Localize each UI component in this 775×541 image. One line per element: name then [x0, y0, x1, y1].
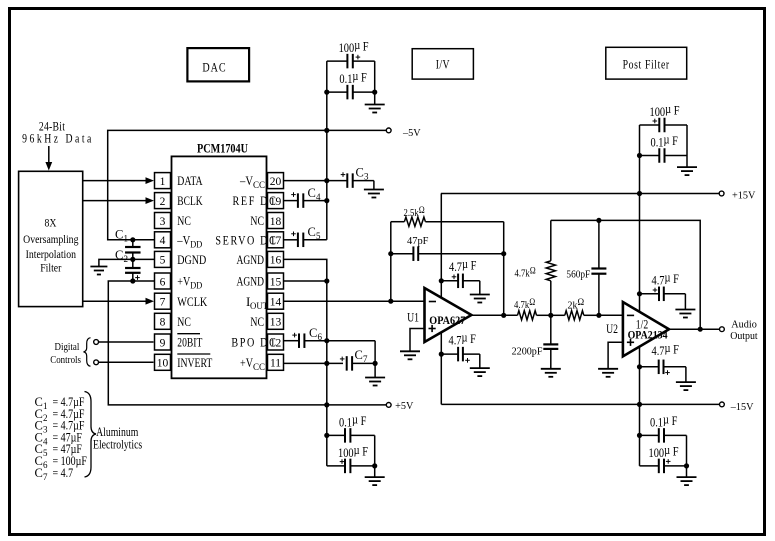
- terminal INVERT control input: [94, 360, 99, 365]
- pin 19 label REF DC: [233, 194, 278, 208]
- IC PCM1704U body: [172, 156, 267, 378]
- brace for digital controls: [84, 338, 91, 367]
- note Aluminum Electrolytics: [96, 426, 138, 439]
- svg-text:Digital: Digital: [55, 341, 80, 353]
- node C2 bottom on +VDD line: [130, 278, 135, 283]
- wire INVERT control to pin 10: [99, 361, 154, 363]
- capacitor 4.7uF U2 negative bypass: [640, 366, 659, 368]
- pin 12 box: [268, 334, 284, 350]
- svg-text:16: 16: [270, 255, 282, 267]
- capacitor C1: [132, 240, 134, 247]
- ground at DGND: [90, 267, 107, 275]
- wire right side +15V bypass: [686, 125, 688, 156]
- svg-text:3: 3: [43, 425, 48, 435]
- svg-text:20BIT: 20BIT: [177, 335, 202, 350]
- label 560pF: [566, 269, 590, 281]
- label +5V: [395, 401, 414, 412]
- resistor 2k series: [551, 314, 565, 316]
- svg-text:U2: U2: [606, 323, 618, 336]
- node 47pF right: [501, 251, 506, 256]
- wire U1 supply vertical from +15V to -15V: [440, 194, 442, 405]
- node U1 output junction: [501, 313, 506, 318]
- label 100uF -15V: [649, 443, 679, 460]
- block label text DAC: [202, 60, 226, 74]
- pin 5 box: [155, 251, 171, 267]
- svg-text:I/V: I/V: [436, 58, 450, 71]
- node C4 on -5V vertical: [324, 198, 329, 203]
- svg-text:INVERT: INVERT: [177, 355, 212, 370]
- svg-text:20: 20: [270, 176, 282, 188]
- svg-text:DD: DD: [190, 282, 202, 292]
- svg-text:NC: NC: [250, 314, 264, 329]
- wire WCLK from filter to pin 7 with arrow: [83, 300, 146, 302]
- wire U2 supply vertical: [639, 125, 641, 466]
- label 24-Bit 96kHz Data: [39, 120, 66, 133]
- svg-text:CC: CC: [253, 181, 265, 191]
- svg-text:NC: NC: [250, 213, 264, 228]
- pin 13 box: [268, 313, 284, 329]
- svg-text:Electrolytics: Electrolytics: [93, 438, 142, 451]
- wire node B to U2 inverting input: [599, 314, 623, 316]
- wire -VDD pin 4 to -5V rail: [108, 130, 327, 239]
- U2 plus input mark: [627, 339, 634, 346]
- node filter node B at 560pF: [596, 313, 601, 318]
- svg-text:SERVO DC: SERVO DC: [215, 233, 277, 247]
- svg-text:47pF: 47pF: [407, 235, 429, 247]
- node 0.1uF +15V left: [637, 153, 642, 158]
- wire AGND pin 16: [284, 259, 327, 281]
- svg-text:13: 13: [270, 317, 282, 329]
- terminal -5V: [386, 128, 391, 133]
- node AGND junction: [324, 278, 329, 283]
- wire AGND vertical down to +5V rail: [326, 281, 328, 466]
- label 4.7uF U1 bottom: [449, 330, 477, 347]
- node 47pF left: [388, 251, 393, 256]
- pin 9 box: [155, 334, 171, 350]
- node filter node A: [548, 313, 553, 318]
- svg-text:11: 11: [270, 358, 281, 370]
- ground for +15V bypass: [686, 156, 688, 167]
- svg-text:560pF: 560pF: [566, 269, 590, 281]
- ground for U2 negative bypass: [685, 367, 687, 382]
- wire DATA from filter to pin 1 with arrow: [83, 180, 146, 182]
- svg-text:2: 2: [43, 413, 48, 423]
- svg-text:DATA: DATA: [177, 173, 203, 188]
- label Audio Output: [731, 319, 757, 330]
- op-amp U1 OPA627 triangle: [425, 288, 472, 342]
- pin 7 box: [155, 293, 171, 309]
- pin 3 box: [155, 213, 171, 229]
- U1 plus input mark: [429, 325, 436, 332]
- arrow input data into filter: [48, 146, 50, 164]
- pin 2 box: [155, 193, 171, 209]
- node 0.1uF -15V left: [637, 433, 642, 438]
- capacitor C4 on REF DC pin 19: [284, 200, 298, 202]
- pin 15 box: [268, 273, 284, 289]
- pin 17 label SERVO DC: [215, 233, 277, 247]
- ground for DAC top bypass: [374, 92, 376, 104]
- pin 11 box: [268, 354, 284, 370]
- svg-text:–5V: –5V: [402, 128, 421, 139]
- terminal -15V: [720, 402, 725, 407]
- wire IOUT pin 14 to U1 inverting input: [284, 300, 425, 302]
- svg-text:OUT: OUT: [250, 302, 268, 312]
- pin 18 box: [268, 213, 284, 229]
- capacitor 100uF -15V bypass: [640, 465, 659, 467]
- svg-text:1: 1: [43, 401, 48, 411]
- wire U2 feedback line: [551, 220, 700, 329]
- svg-text:CC: CC: [253, 363, 265, 373]
- node -5V rail to bypass vertical: [324, 128, 329, 133]
- capacitor 47pF feedback U1: [391, 253, 414, 255]
- pin 12 label BPO DC: [231, 335, 277, 349]
- svg-text:Filter: Filter: [40, 262, 62, 275]
- block label box DAC: [187, 48, 249, 81]
- ground for -15V bypass: [686, 466, 688, 477]
- svg-text:AGND: AGND: [237, 274, 265, 289]
- svg-text:6: 6: [43, 460, 48, 470]
- svg-text:4: 4: [160, 235, 166, 247]
- terminal +15V: [719, 191, 724, 196]
- pin 19 box: [268, 193, 284, 209]
- ground for bottom DAC bypass: [374, 466, 376, 477]
- label 2.5kOhm: [404, 204, 425, 219]
- svg-text:OPA627: OPA627: [429, 313, 465, 327]
- svg-text:6: 6: [318, 332, 323, 342]
- capacitor 4.7uF U1 positive bypass: [441, 280, 458, 282]
- label 4.7kOhm series1: [514, 296, 535, 311]
- svg-text:C: C: [115, 228, 123, 242]
- ground for U2 positive bypass: [684, 294, 686, 309]
- wire C6 right down to C7 right: [374, 341, 376, 364]
- capacitor C7 on +VCC pin 11: [284, 362, 344, 364]
- svg-text:REF DC: REF DC: [233, 194, 278, 208]
- capacitor 0.1uF bottom DAC bypass: [327, 434, 345, 436]
- label 0.1uF -15V: [650, 412, 678, 429]
- wire -5V vertical bypass rail: [326, 61, 328, 240]
- pin 17 box: [268, 232, 284, 248]
- node C1 bottom on DGND line: [130, 257, 135, 262]
- terminal +5V: [386, 403, 391, 408]
- svg-text:1: 1: [124, 234, 129, 244]
- label 47pF: [407, 235, 429, 247]
- svg-text:–15V: –15V: [730, 402, 754, 413]
- label 100uF top DAC: [339, 38, 369, 55]
- wire 20BIT control to pin 9: [99, 341, 154, 343]
- svg-text:DGND: DGND: [177, 252, 206, 267]
- label 0.1uF bottom DAC: [339, 412, 367, 429]
- pin 6 box: [155, 273, 171, 289]
- block 8X Oversampling Interpolation Filter: [19, 171, 83, 306]
- node 0.1uF right junction: [372, 90, 377, 95]
- wire +15V rail: [441, 193, 720, 195]
- svg-text:+15V: +15V: [732, 190, 756, 201]
- terminal 20BIT control input: [94, 340, 99, 345]
- wire U1 output: [471, 314, 517, 316]
- svg-text:BPO DC: BPO DC: [231, 335, 277, 349]
- svg-text:NC: NC: [177, 213, 191, 228]
- svg-text:C: C: [35, 466, 43, 480]
- svg-text:2200pF: 2200pF: [512, 346, 543, 357]
- capacitor C6 on BPO DC pin 12: [284, 340, 300, 342]
- svg-text:10: 10: [157, 358, 169, 370]
- pin 8 box: [155, 313, 171, 329]
- wire right side -15V bypass: [686, 435, 688, 466]
- wire U1 non-inverting input to ground: [410, 329, 425, 352]
- svg-text:OPA2134: OPA2134: [628, 327, 668, 341]
- node C7 left on vertical: [324, 361, 329, 366]
- svg-text:100µ F: 100µ F: [339, 38, 369, 55]
- label 4.7uF U2 top: [652, 270, 680, 287]
- node +15V rail bypass junction: [637, 191, 642, 196]
- svg-text:Output: Output: [730, 331, 758, 343]
- U1 minus input mark: [429, 301, 436, 303]
- svg-text:Aluminum: Aluminum: [96, 426, 138, 439]
- label U2: [606, 323, 618, 336]
- node C6 on vertical: [324, 338, 329, 343]
- svg-text:6: 6: [160, 276, 166, 288]
- ground for C3: [373, 181, 375, 190]
- label 0.1uF +15V: [651, 132, 679, 149]
- label 2kOhm: [568, 298, 585, 312]
- svg-text:96kHz Data: 96kHz Data: [22, 132, 94, 145]
- block label text Post Filter: [623, 58, 670, 71]
- capacitor C3: [327, 180, 348, 182]
- label 1/2: [636, 319, 648, 332]
- label 100uF +15V: [650, 102, 680, 119]
- capacitor 2200pF to ground: [550, 315, 552, 344]
- node U2 +supply bypass junction: [637, 291, 642, 296]
- node -VDD cap C1 junction: [130, 237, 135, 242]
- node U1 +supply bypass junction: [439, 278, 444, 283]
- wire -15V rail: [441, 403, 720, 405]
- resistor 2.5k feedback U1: [391, 221, 405, 223]
- capacitor C5 on SERVO DC pin 17: [284, 239, 298, 241]
- wire pin 20 -VCC to -5V vertical: [284, 180, 327, 182]
- label 4.7kOhm vertical: [515, 264, 536, 279]
- U2 minus input mark: [627, 314, 634, 316]
- node 0.1uF left junction: [324, 90, 329, 95]
- block label box I/V: [412, 49, 473, 79]
- svg-text:1: 1: [160, 176, 166, 188]
- resistor 4.7k vertical to feedback: [550, 220, 552, 260]
- svg-text:+V: +V: [177, 274, 190, 289]
- svg-text:5: 5: [160, 255, 166, 267]
- terminal audio output: [720, 327, 725, 332]
- capacitor 0.1uF -15V bypass: [640, 434, 659, 436]
- label 2200pF: [512, 346, 543, 357]
- label -15V: [730, 402, 754, 413]
- svg-text:14: 14: [270, 297, 282, 309]
- svg-text:DAC: DAC: [202, 60, 226, 74]
- pin 16 box: [268, 251, 284, 267]
- svg-text:Audio: Audio: [731, 319, 757, 330]
- block label box Post Filter: [606, 47, 687, 79]
- svg-text:5: 5: [316, 231, 321, 241]
- svg-text:C: C: [308, 186, 316, 200]
- svg-text:15: 15: [270, 276, 282, 288]
- svg-text:7: 7: [363, 354, 368, 364]
- capacitor 4.7uF U1 negative bypass: [441, 353, 458, 355]
- capacitor 100uF bottom DAC bypass: [327, 465, 345, 467]
- capacitor 100uF top DAC bypass: [327, 60, 348, 62]
- svg-text:7: 7: [160, 297, 166, 309]
- svg-text:+V: +V: [240, 355, 253, 370]
- capacitor 560pF: [598, 220, 600, 268]
- op-amp U2 OPA2134 triangle: [623, 302, 669, 356]
- wire U2 output to audio output: [669, 328, 720, 330]
- svg-text:–V: –V: [176, 232, 190, 247]
- wire AGND pin 15: [284, 280, 327, 282]
- svg-text:4: 4: [316, 192, 321, 202]
- node feedback junction on IOUT: [388, 299, 393, 304]
- wire DGND pin 5 to ground: [99, 259, 155, 266]
- svg-text:NC: NC: [177, 314, 191, 329]
- svg-text:AGND: AGND: [237, 252, 265, 267]
- capacitor 0.1uF +15V bypass: [640, 155, 660, 157]
- svg-text:Post Filter: Post Filter: [623, 58, 670, 71]
- node 560pF top junction: [596, 218, 601, 223]
- svg-text:C: C: [115, 248, 123, 262]
- pin 14 box: [268, 293, 284, 309]
- label 4.7uF U1 top: [449, 257, 477, 274]
- wire right side of DAC top bypass: [374, 61, 376, 92]
- wire feedback left vertical: [390, 222, 392, 302]
- svg-text:3: 3: [160, 216, 166, 228]
- svg-text:8X: 8X: [45, 217, 57, 230]
- svg-text:Oversampling: Oversampling: [23, 233, 79, 246]
- svg-text:100µ F: 100µ F: [650, 102, 680, 119]
- svg-text:Interpolation: Interpolation: [26, 248, 77, 261]
- node U1 -supply bypass junction: [439, 352, 444, 357]
- node U2 output feedback junction: [698, 327, 703, 332]
- ground at U2 plus input: [598, 369, 618, 377]
- svg-text:4: 4: [43, 436, 48, 446]
- ground at U1 plus input: [400, 351, 420, 359]
- svg-text:Controls: Controls: [50, 355, 81, 367]
- capacitor C2: [132, 259, 134, 268]
- node U2 -supply bypass junction: [637, 364, 642, 369]
- svg-text:U1: U1: [407, 311, 419, 324]
- node -15V rail bypass junction: [637, 402, 642, 407]
- svg-text:= 4.7: = 4.7: [53, 467, 74, 480]
- label 4.7uF U2 bottom: [652, 341, 680, 358]
- ground for 2200pF: [541, 369, 561, 377]
- node C7 right junction: [373, 361, 378, 366]
- capacitor 0.1uF top DAC bypass: [327, 91, 348, 93]
- wire right side bottom bypass: [374, 435, 376, 466]
- svg-text:DD: DD: [190, 240, 202, 250]
- label +15V: [732, 190, 756, 201]
- node pin 20 junction on -5V vertical: [324, 178, 329, 183]
- svg-text:9: 9: [160, 337, 166, 349]
- svg-text:WCLK: WCLK: [177, 294, 207, 309]
- node 100uF -15V right: [684, 463, 689, 468]
- svg-text:–V: –V: [239, 173, 253, 188]
- svg-text:+5V: +5V: [395, 401, 414, 412]
- svg-text:3: 3: [364, 171, 369, 181]
- svg-text:8: 8: [160, 317, 166, 329]
- svg-text:C: C: [309, 326, 317, 340]
- svg-text:18: 18: [270, 216, 282, 228]
- svg-text:BCLK: BCLK: [177, 193, 203, 208]
- pin 1 box: [155, 173, 171, 189]
- svg-text:C: C: [356, 165, 364, 179]
- svg-text:7: 7: [43, 472, 48, 482]
- pin 20 box: [268, 173, 284, 189]
- node +5V rail junction: [324, 402, 329, 407]
- svg-text:2: 2: [160, 196, 166, 208]
- pin 4 box: [155, 232, 171, 248]
- resistor 4.7k series from U1 output: [518, 311, 537, 320]
- svg-text:100µ F: 100µ F: [338, 443, 368, 460]
- label U1: [407, 311, 419, 324]
- svg-text:PCM1704U: PCM1704U: [197, 141, 248, 156]
- svg-text:C: C: [308, 225, 316, 239]
- node 0.1uF bottom left: [324, 433, 329, 438]
- node 100uF bottom right: [372, 463, 377, 468]
- ground for U1 negative bypass: [479, 354, 481, 368]
- label -5V: [402, 128, 421, 139]
- capacitor 4.7uF U2 positive bypass: [640, 293, 660, 295]
- ground for C7: [374, 363, 376, 377]
- svg-text:C: C: [355, 348, 363, 362]
- wire U2 non-inverting input to ground: [608, 342, 623, 368]
- svg-text:5: 5: [43, 448, 48, 458]
- block label text I/V: [436, 58, 450, 71]
- svg-text:2: 2: [124, 254, 129, 264]
- wire +VDD pin 6 down to +5V rail: [108, 281, 386, 405]
- label Digital Controls: [55, 341, 80, 353]
- wire BCLK from filter to pin 2 with arrow: [83, 200, 146, 202]
- brace for electrolytic note: [85, 392, 97, 478]
- capacitor 100uF +15V bypass: [640, 124, 660, 126]
- wire -5V rail to terminal: [327, 129, 387, 131]
- label 100uF bottom DAC: [338, 443, 368, 460]
- wire feedback right vertical to U1 output: [503, 222, 505, 316]
- ground for U1 positive bypass: [479, 281, 481, 294]
- label 0.1uF top DAC: [339, 69, 367, 86]
- svg-text:100µ F: 100µ F: [649, 443, 679, 460]
- pin 10 box: [155, 354, 171, 370]
